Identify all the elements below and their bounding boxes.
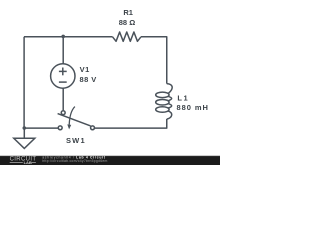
- svg-text:88 V: 88 V: [80, 75, 97, 84]
- svg-text:SW1: SW1: [66, 136, 86, 145]
- svg-text:V1: V1: [80, 65, 90, 74]
- svg-text:L1: L1: [177, 94, 189, 103]
- svg-text:R1: R1: [123, 8, 133, 17]
- svg-text:880 mH: 880 mH: [177, 103, 209, 112]
- svg-text:LAB: LAB: [24, 160, 32, 165]
- svg-text:88 Ω: 88 Ω: [119, 18, 135, 27]
- svg-text:http://circuitlab.com/c4y7brn5: http://circuitlab.com/c4y7brn5pgd6em: [42, 159, 107, 163]
